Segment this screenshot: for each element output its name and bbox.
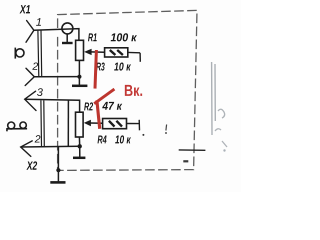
pin number 2: [32, 62, 38, 69]
faint bleed-through marks: [215, 109, 227, 147]
Ю mark: [15, 48, 24, 59]
annotation Вк.: [125, 85, 142, 96]
output wire stub crossing right border: [179, 149, 206, 151]
device boundary dashed frame: [58, 10, 197, 170]
junction node (R1 bottom / pin2): [77, 75, 81, 79]
wire: X1 pin2 to ground junction: [34, 76, 79, 78]
wire: pin3 to R2 top: [25, 99, 80, 112]
X2 pin 3 contact (arrow): [25, 91, 36, 110]
R4 power-rating hatch: [109, 121, 122, 127]
X1 pin 1 contact (chevron): [26, 21, 34, 43]
wire: X1 pin1 to R1 top: [34, 29, 79, 41]
junction node (R2 bottom / X2 wire): [78, 144, 82, 148]
connector X1 label: [20, 5, 31, 13]
shield screen circle: [62, 23, 73, 34]
ground wire through frame corner: [57, 146, 59, 181]
value 10 к: [115, 135, 131, 143]
wire: wiper to R4: [90, 122, 103, 124]
wire: R4 right lead: [127, 120, 140, 131]
value 10 к: [114, 62, 131, 70]
ground bar (R2 junction): [73, 157, 85, 160]
wire: wiper to R3: [91, 51, 105, 53]
ground bar (bottom left): [50, 181, 65, 184]
resistor R2 (potentiometer body): [76, 112, 84, 137]
wire: X2 pin2 rail: [21, 145, 80, 148]
В mark (rotated letter): [7, 122, 27, 131]
value 100 к: [111, 33, 137, 41]
wire pair (screened bus) upper: [38, 31, 42, 77]
value 47 к: [102, 102, 122, 110]
small dash above bottom border: [183, 160, 188, 162]
wire pair (screened bus) lower: [41, 100, 44, 146]
red mark bar C (lower wiper): [97, 100, 100, 129]
label R1: [88, 33, 97, 41]
X1 pin 2 contact (chevron): [25, 68, 34, 85]
resistor R1 (potentiometer body): [76, 40, 84, 60]
wire: pin3 rail down to X2 wire: [67, 100, 69, 146]
wire: R2 bottom lead: [78, 137, 80, 157]
label R4: [98, 135, 107, 143]
wire: R3 right lead: [128, 52, 141, 61]
stray dot after value: [142, 134, 144, 136]
resistor R3 body: [105, 48, 128, 57]
R3 power-rating hatch: [110, 50, 123, 55]
ground bar (shield): [62, 42, 73, 44]
pin number 2: [35, 135, 41, 142]
R2 wiper arrow: [84, 120, 91, 126]
connector X2 label: [26, 161, 37, 169]
pin number 1: [36, 18, 41, 26]
label R3: [96, 62, 105, 70]
small dark mark (1.): [165, 125, 168, 131]
resistor R4 body: [103, 119, 127, 129]
wire: R1 bottom lead: [78, 60, 80, 85]
faint bleed-through vertical lines: [212, 62, 216, 135]
red mark bar A (upper wiper): [95, 50, 96, 89]
shield ground stem: [66, 34, 68, 42]
label R2: [84, 102, 93, 110]
pin number 3: [37, 88, 43, 96]
X2 pin 2 contact (arrow): [21, 141, 33, 157]
R1 wiper arrow: [84, 49, 92, 55]
red leader line to Вк.: [94, 89, 114, 104]
junction dot on frame corner: [56, 168, 60, 172]
ground bar (R1 junction): [72, 85, 87, 88]
